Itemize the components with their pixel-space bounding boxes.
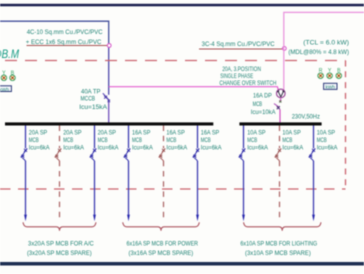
svg-text:Y: Y — [2, 70, 6, 76]
svg-text:(3x16A SP MCB SPARE): (3x16A SP MCB SPARE) — [129, 250, 194, 257]
svg-text:Icu=6kA: Icu=6kA — [132, 145, 153, 152]
svg-text:16A SP: 16A SP — [132, 129, 151, 136]
svg-text:6x10A SP MCB FOR LIGHTING: 6x10A SP MCB FOR LIGHTING — [240, 241, 317, 248]
svg-text:MCB: MCB — [247, 137, 257, 144]
svg-text:Icu=6kA: Icu=6kA — [29, 145, 50, 152]
svg-text:Icu=6kA: Icu=6kA — [201, 145, 222, 152]
svg-text:MCB: MCB — [29, 137, 39, 144]
svg-text:Icu=10kA: Icu=10kA — [251, 109, 276, 116]
svg-text:Icu=6kA: Icu=6kA — [317, 145, 338, 152]
svg-text:SINGLE PHASE: SINGLE PHASE — [220, 73, 253, 80]
svg-text:kWh: kWh — [325, 85, 335, 91]
svg-text:6x16A SP MCB FOR POWER: 6x16A SP MCB FOR POWER — [127, 241, 199, 248]
svg-text:R: R — [319, 68, 323, 74]
svg-text:MCB: MCB — [282, 137, 292, 144]
svg-text:4C-10 Sq.mm Cu./PVC/PVC: 4C-10 Sq.mm Cu./PVC/PVC — [27, 29, 103, 36]
svg-text:3x20A SP MCB FOR A/C: 3x20A SP MCB FOR A/C — [28, 241, 94, 248]
svg-text:10A SP: 10A SP — [317, 129, 336, 136]
svg-text:(3x10A SP MCB SPARE): (3x10A SP MCB SPARE) — [245, 250, 311, 257]
svg-text:Icu=6kA: Icu=6kA — [63, 145, 84, 152]
svg-text:10A SP: 10A SP — [282, 129, 301, 136]
svg-text:Y: Y — [328, 68, 332, 74]
svg-text:40A TP: 40A TP — [81, 89, 101, 96]
svg-text:MCB: MCB — [98, 137, 108, 144]
svg-text:MCB: MCB — [166, 137, 176, 144]
svg-text:DB.M: DB.M — [0, 47, 20, 61]
svg-text:10A SP: 10A SP — [247, 129, 266, 136]
svg-text:16A DP: 16A DP — [253, 92, 272, 99]
svg-text:MCB: MCB — [132, 137, 142, 144]
svg-text:kWh: kWh — [0, 87, 9, 93]
svg-text:3C-4 Sq.mm Cu./PVC/PVC: 3C-4 Sq.mm Cu./PVC/PVC — [202, 41, 275, 48]
svg-text:MCB: MCB — [201, 137, 211, 144]
svg-text:(MDL@80% = 4.8 kW): (MDL@80% = 4.8 kW) — [288, 49, 349, 56]
svg-text:MCCB: MCCB — [81, 96, 96, 103]
svg-text:MCB: MCB — [317, 137, 327, 144]
svg-text:+ ECC 1x6 Sq.mm Cu./PVC: + ECC 1x6 Sq.mm Cu./PVC — [26, 39, 102, 46]
svg-text:(3x20A SP MCB SPARE): (3x20A SP MCB SPARE) — [27, 250, 92, 257]
svg-text:Icu=6kA: Icu=6kA — [166, 145, 187, 152]
svg-text:20A, 3.POSITION: 20A, 3.POSITION — [222, 66, 261, 73]
svg-text:20A SP: 20A SP — [98, 129, 117, 136]
svg-text:16A SP: 16A SP — [201, 129, 220, 136]
svg-text:MCB: MCB — [253, 101, 263, 108]
svg-text:Icu=6kA: Icu=6kA — [247, 145, 268, 152]
svg-text:16A SP: 16A SP — [166, 129, 185, 136]
svg-text:B: B — [337, 68, 341, 74]
svg-text:Icu=6kA: Icu=6kA — [98, 145, 119, 152]
svg-text:20A SP: 20A SP — [63, 129, 82, 136]
svg-text:230V,50Hz: 230V,50Hz — [292, 113, 321, 120]
svg-text:B: B — [11, 70, 15, 76]
svg-text:Icu=15kA: Icu=15kA — [79, 104, 107, 111]
svg-text:(TCL = 6.0 kW): (TCL = 6.0 kW) — [303, 39, 349, 46]
svg-text:CHANGE OVER SWITCH: CHANGE OVER SWITCH — [219, 80, 276, 87]
svg-text:20A SP: 20A SP — [29, 129, 48, 136]
svg-text:MCB: MCB — [63, 137, 73, 144]
svg-text:Icu=6kA: Icu=6kA — [282, 145, 303, 152]
